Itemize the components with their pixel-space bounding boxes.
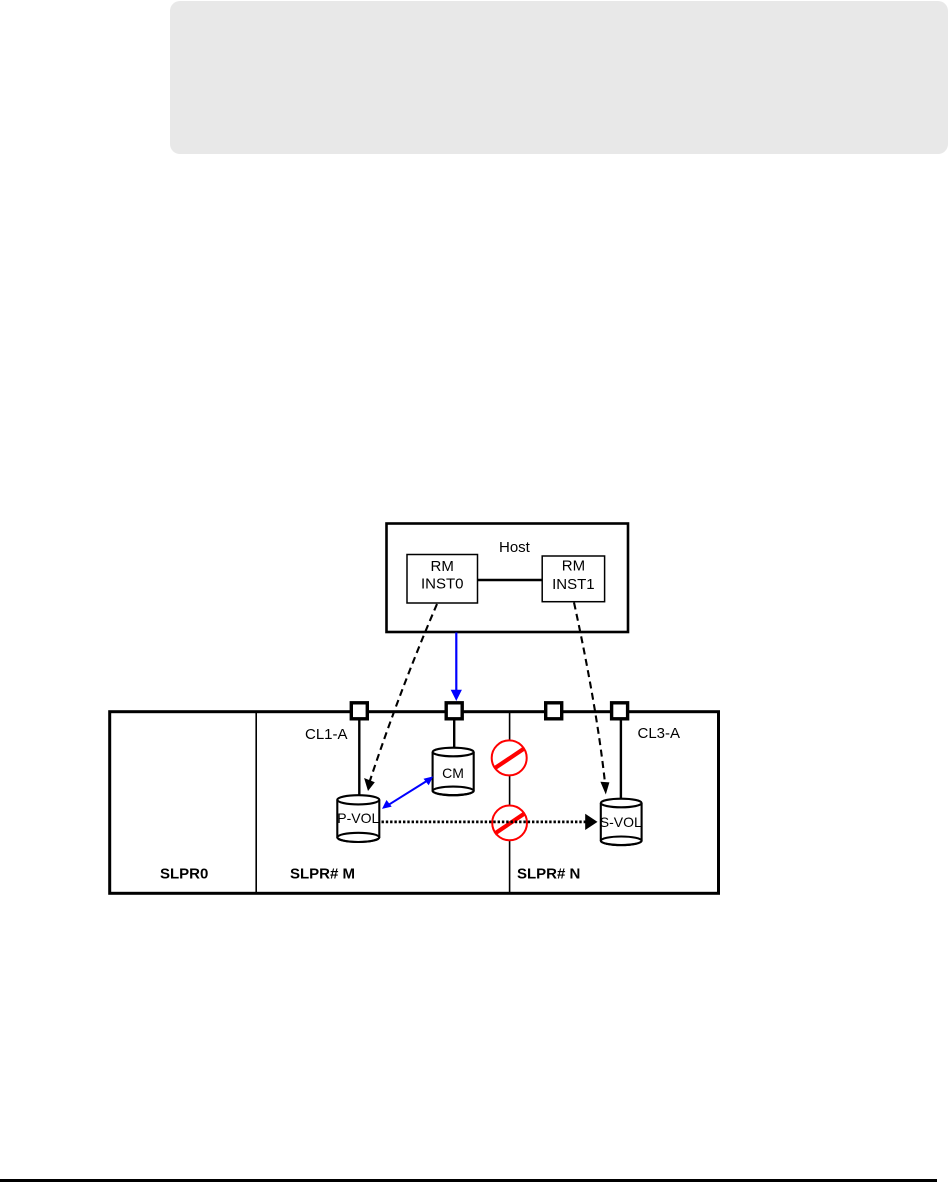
storage system box xyxy=(110,712,719,894)
svg-text:SLPR# M: SLPR# M xyxy=(290,865,355,882)
svg-text:INST0: INST0 xyxy=(421,575,464,592)
RM INST1 box xyxy=(542,556,604,602)
wire RM INST0 to RM INST1 xyxy=(478,579,543,582)
svg-text:SLPR0: SLPR0 xyxy=(160,865,208,882)
cylinder P-VOL xyxy=(337,795,379,842)
RM INST0 box xyxy=(407,555,478,604)
blue double arrow CM to P-VOL xyxy=(382,776,433,809)
divider SLPR0 / SLPR# M xyxy=(255,713,257,893)
blue arrow Host to port 2 xyxy=(451,633,462,702)
svg-text:CL1-A: CL1-A xyxy=(305,726,348,743)
footer rule xyxy=(0,1179,937,1182)
wire port2 to CM xyxy=(453,718,455,752)
gray header panel xyxy=(170,1,948,154)
dashed arrow RM INST0 to P-VOL xyxy=(364,604,437,791)
host box xyxy=(387,524,629,633)
svg-text:CL3-A: CL3-A xyxy=(638,725,681,742)
svg-text:Host: Host xyxy=(499,539,531,556)
svg-text:S-VOL: S-VOL xyxy=(600,814,642,830)
prohibition sign 2 xyxy=(492,806,527,841)
wire port1 to P-VOL xyxy=(358,718,360,800)
svg-text:RM: RM xyxy=(562,558,585,575)
port square 1 (CL1-A) xyxy=(351,703,367,719)
svg-text:SLPR# N: SLPR# N xyxy=(517,865,580,882)
svg-text:CM: CM xyxy=(442,765,464,781)
svg-text:RM: RM xyxy=(431,558,454,575)
dotted arrow P-VOL to S-VOL xyxy=(382,814,598,830)
divider SLPR# M / SLPR# N xyxy=(509,713,511,893)
wire port4 to S-VOL xyxy=(620,718,622,804)
prohibition sign 1 xyxy=(492,740,527,775)
svg-text:INST1: INST1 xyxy=(552,576,595,593)
port square 2 xyxy=(446,703,462,719)
cylinder CM xyxy=(433,748,474,796)
cylinder S-VOL xyxy=(600,799,642,845)
port square 3 xyxy=(546,703,562,719)
svg-text:P-VOL: P-VOL xyxy=(337,810,379,826)
dashed arrow RM INST1 to S-VOL xyxy=(574,603,609,795)
port square 4 (CL3-A) xyxy=(612,703,628,719)
